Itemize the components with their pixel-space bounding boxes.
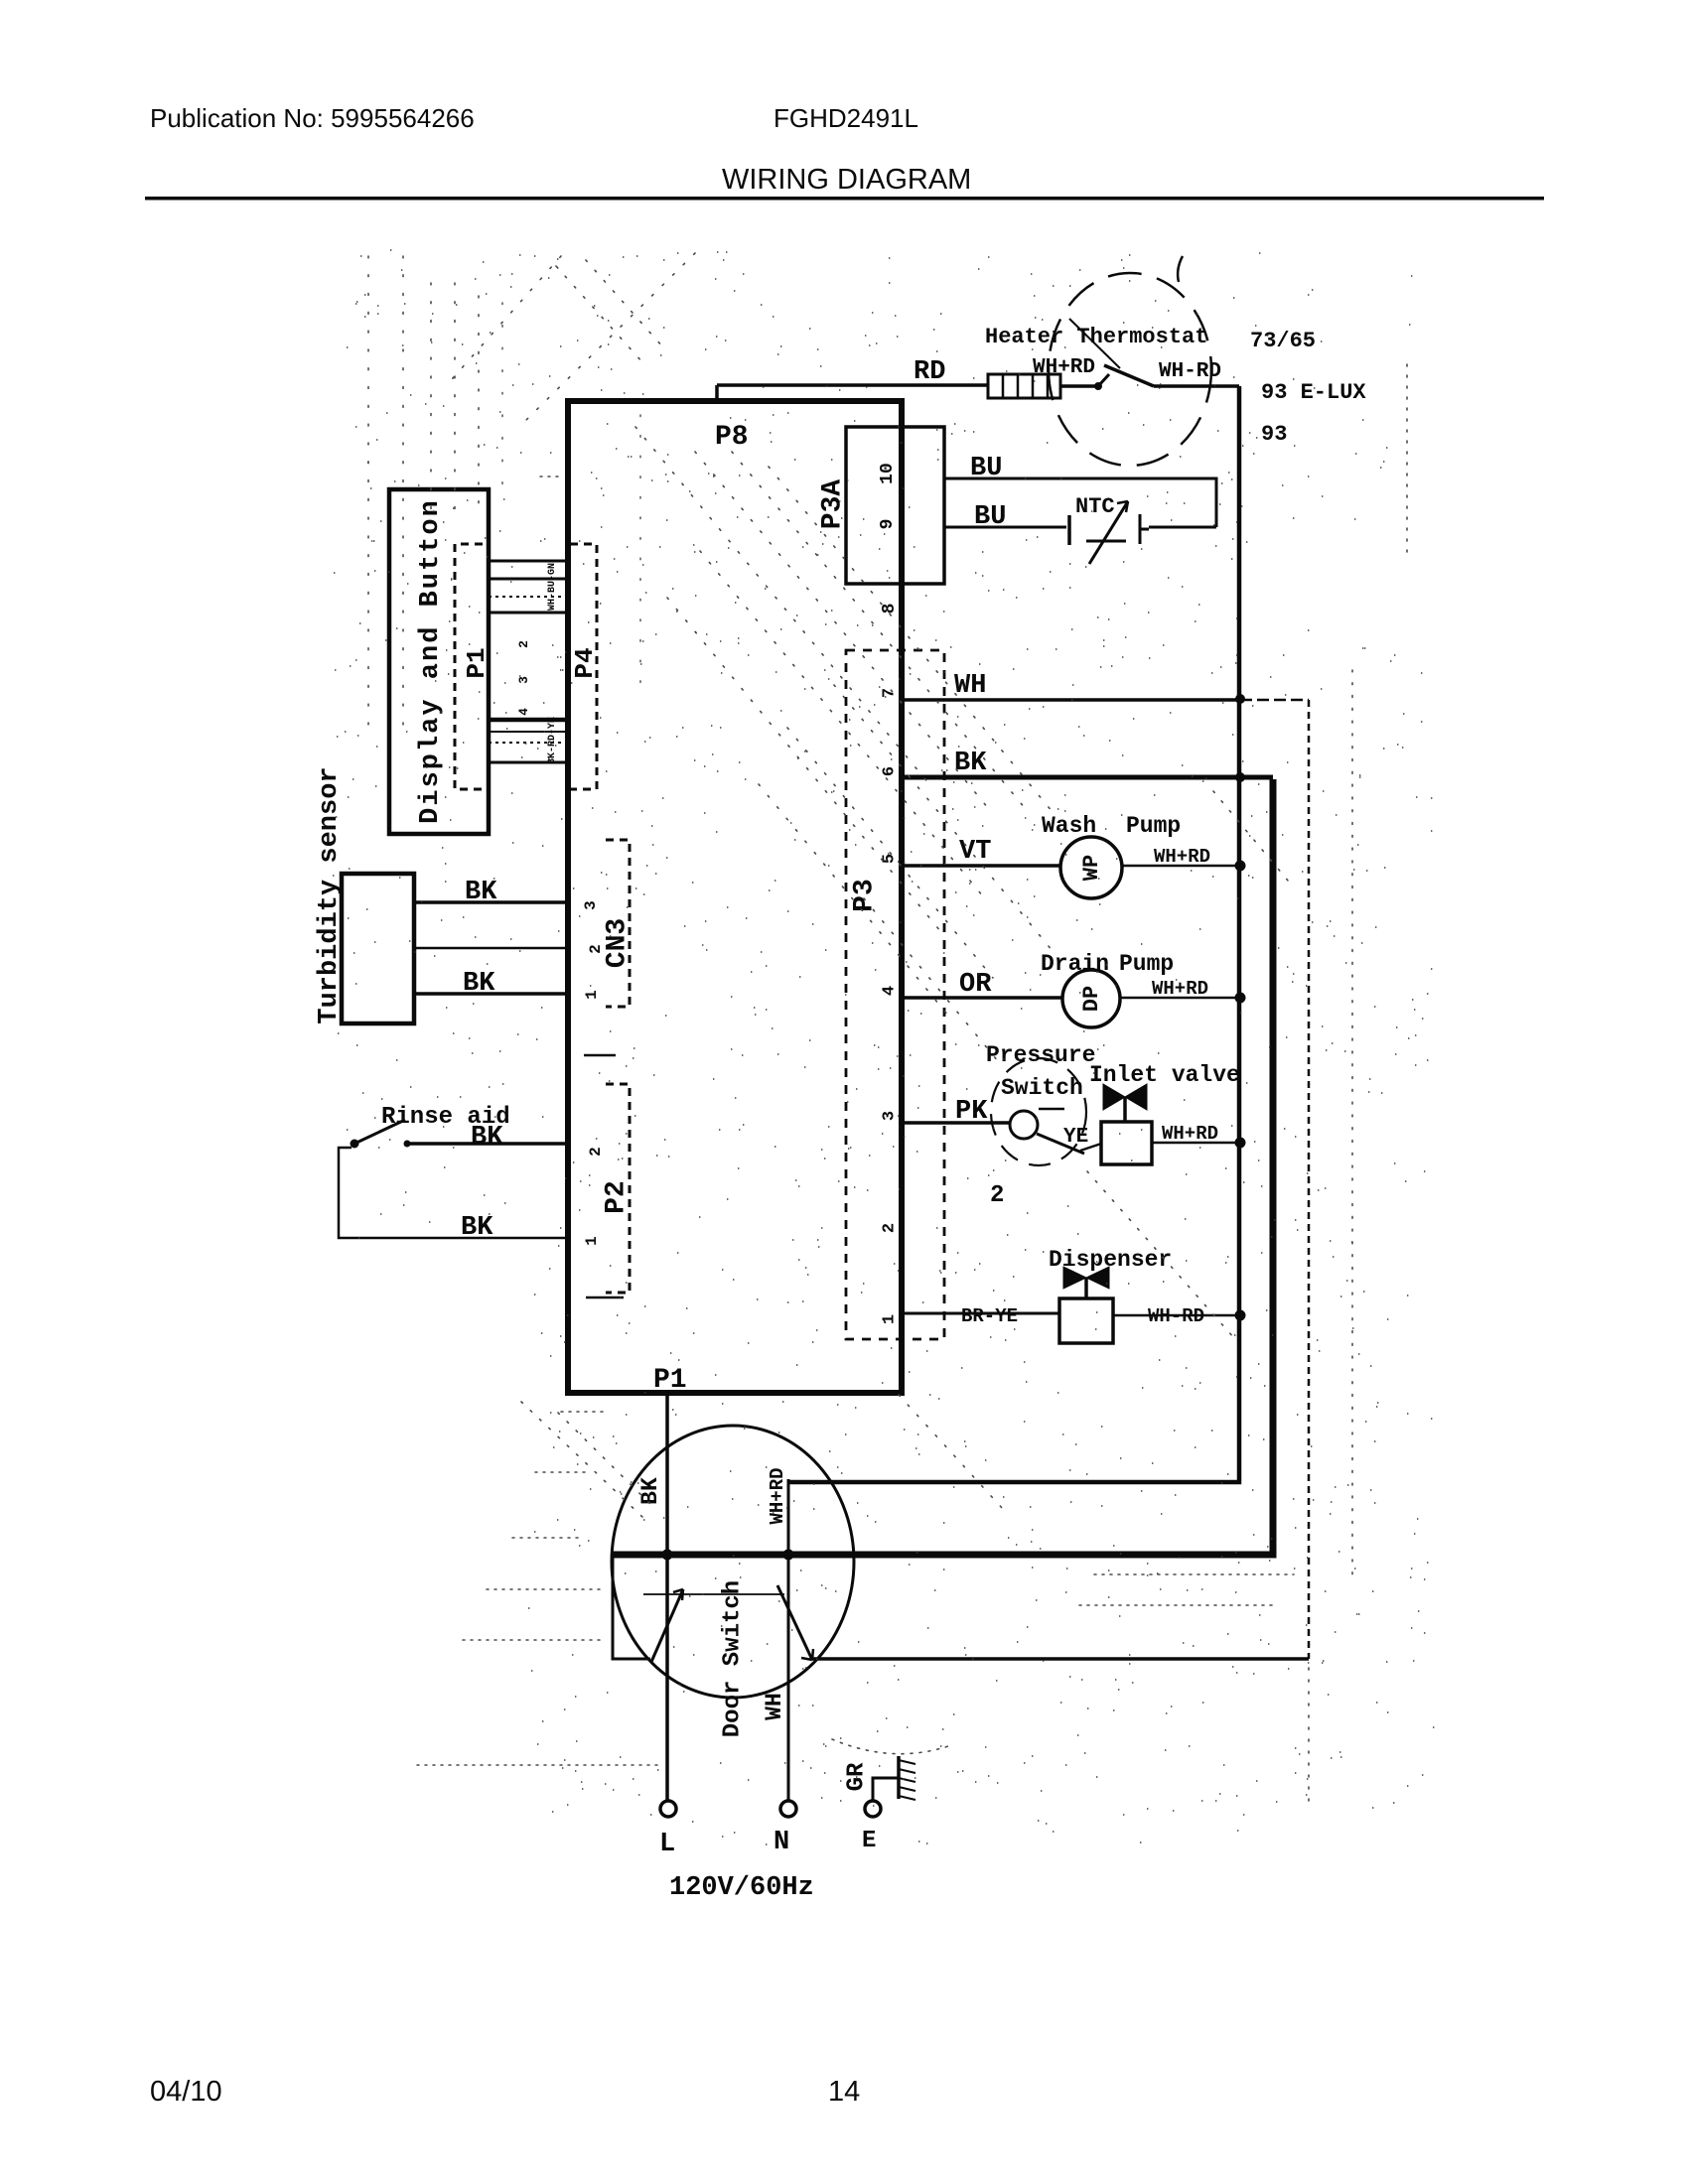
connector P2 bracket: [586, 1084, 630, 1297]
bus WH-RD right side: [788, 386, 1239, 1482]
svg-text:WH+RD: WH+RD: [1033, 356, 1095, 379]
wire BK: [902, 775, 1273, 780]
main control board: [568, 401, 902, 1393]
svg-text:BK: BK: [637, 1477, 663, 1505]
display and button board: [389, 489, 489, 834]
door switch circle: [612, 1426, 854, 1698]
svg-text:3: 3: [880, 1111, 899, 1121]
heater thermostat circle: [1049, 273, 1211, 466]
connector P4 bracket: [570, 544, 597, 789]
svg-text:2: 2: [880, 1223, 899, 1233]
terminal L: [660, 1801, 676, 1817]
svg-text:P2: P2: [601, 1180, 632, 1214]
svg-text:Heater Thermostat: Heater Thermostat: [985, 325, 1207, 349]
svg-text:BK: BK: [463, 969, 495, 999]
drain pump motor: [1062, 970, 1120, 1027]
svg-text:P3: P3: [849, 879, 880, 912]
svg-text:Wash: Wash: [1042, 813, 1096, 839]
svg-text:3: 3: [516, 676, 531, 684]
svg-text:BU: BU: [974, 502, 1006, 532]
connector P3 box: [846, 650, 944, 1339]
svg-text:Switch: Switch: [1001, 1075, 1083, 1101]
circle top tick: [1178, 256, 1183, 282]
terminal E: [865, 1801, 881, 1817]
bus WH right side vertical: [1308, 700, 1311, 1659]
turbidity wire BK top: [414, 900, 568, 904]
wire OR: [902, 996, 1062, 1000]
bus WH bottom horizontal: [812, 1657, 1309, 1661]
svg-text:P3A: P3A: [817, 479, 848, 530]
dispenser coil: [1059, 1298, 1113, 1343]
turbidity wire middle: [414, 947, 568, 950]
svg-text:WH+RD: WH+RD: [1152, 978, 1208, 1000]
terminal N: [780, 1801, 796, 1817]
svg-text:FGHD2491L: FGHD2491L: [774, 103, 918, 133]
svg-text:RD: RD: [914, 357, 945, 387]
svg-text:WH+RD: WH+RD: [1154, 846, 1210, 868]
svg-text:WH-RD: WH-RD: [1148, 1305, 1204, 1327]
svg-text:9: 9: [878, 519, 898, 530]
svg-text:E: E: [862, 1828, 876, 1854]
svg-text:WH+RD: WH+RD: [1162, 1123, 1218, 1145]
ground symbol: [899, 1756, 915, 1800]
dispenser valve symbol: [1063, 1267, 1109, 1298]
wire BU pin9: [944, 526, 1216, 529]
wire WH: [902, 698, 1240, 702]
svg-text:04/10: 04/10: [150, 2076, 222, 2108]
wire RD heater: [717, 385, 988, 401]
title rule: [145, 197, 1544, 201]
svg-text:93: 93: [1261, 422, 1287, 447]
svg-text:Display and Button: Display and Button: [416, 498, 446, 824]
svg-text:L: L: [659, 1830, 675, 1859]
svg-text:7: 7: [880, 688, 899, 698]
svg-text:10: 10: [878, 463, 898, 484]
CN3 spare pin tick: [584, 1054, 616, 1057]
turbidity sensor box: [342, 874, 414, 1024]
svg-text:BU: BU: [970, 454, 1002, 483]
P3 pin numbers: [880, 688, 899, 1324]
wire WH continuation: [1240, 699, 1309, 702]
svg-text:BK: BK: [461, 1213, 493, 1243]
rinse aid switch: [351, 1120, 410, 1148]
svg-text:WH-BU-GN: WH-BU-GN: [547, 563, 558, 611]
svg-text:Inlet valve: Inlet valve: [1089, 1062, 1240, 1088]
rinse aid wire BK top: [407, 1142, 568, 1146]
svg-text:73/65: 73/65: [1250, 329, 1316, 353]
svg-text:BK-RD-YE: BK-RD-YE: [547, 717, 558, 764]
wire WH to terminal N: [787, 1555, 790, 1800]
pressure switch contact: [1010, 1109, 1084, 1154]
dispenser wire WH-RD: [1113, 1314, 1240, 1317]
svg-text:6: 6: [880, 766, 899, 776]
inlet valve wire YE: [1080, 1144, 1101, 1151]
wire VT: [902, 864, 1060, 868]
svg-text:OR: OR: [959, 970, 992, 1000]
connector CN3 bracket: [606, 840, 630, 1007]
P2 pin numbers: [583, 1147, 605, 1246]
CN3 pin numbers: [582, 900, 605, 1000]
svg-text:2: 2: [990, 1182, 1004, 1209]
svg-text:2: 2: [587, 1147, 605, 1157]
svg-text:93 E-LUX: 93 E-LUX: [1261, 380, 1366, 405]
svg-text:1: 1: [880, 1314, 899, 1324]
svg-text:P1: P1: [462, 647, 492, 678]
svg-text:P4: P4: [570, 647, 600, 678]
svg-text:VT: VT: [959, 837, 991, 867]
junction inlet valve bus: [1235, 1138, 1246, 1149]
svg-text:DP: DP: [1079, 986, 1104, 1012]
NTC thermistor: [1069, 501, 1149, 564]
wire BK to terminal L: [665, 1555, 669, 1800]
junction WH crossing: [1235, 694, 1245, 704]
ribbon wire color codes: [547, 563, 558, 764]
svg-text:BK: BK: [471, 1123, 503, 1153]
svg-text:NTC: NTC: [1075, 494, 1115, 519]
connector P1 bracket (display side): [455, 544, 483, 789]
svg-text:Pump: Pump: [1126, 813, 1181, 839]
svg-text:Pressure: Pressure: [986, 1042, 1095, 1068]
turbidity wire BK bottom: [414, 992, 568, 996]
wire E ground: [873, 1778, 899, 1800]
svg-text:N: N: [774, 1828, 789, 1857]
svg-text:PK: PK: [955, 1097, 988, 1127]
svg-text:1: 1: [583, 990, 601, 1000]
inlet valve symbol: [1103, 1084, 1147, 1122]
svg-text:Publication No: 5995564266: Publication No: 5995564266: [150, 103, 475, 133]
svg-text:Pump: Pump: [1119, 951, 1174, 977]
junction wash pump bus: [1235, 861, 1246, 872]
svg-text:CN3: CN3: [602, 918, 633, 968]
door switch right contact: [777, 1585, 813, 1660]
connector P3A box: [846, 427, 944, 584]
dispenser wire BR-YE: [902, 1312, 1059, 1315]
ribbon wires P1 to P4: [489, 561, 568, 762]
heater element: [988, 374, 1060, 398]
svg-text:2: 2: [516, 640, 531, 648]
wire BK from P1 to door switch: [665, 1393, 669, 1555]
inlet valve coil: [1101, 1122, 1152, 1164]
junction dispenser bus: [1235, 1310, 1246, 1321]
junction door switch left pole: [662, 1550, 673, 1561]
svg-text:14: 14: [828, 2076, 860, 2108]
wash pump wire WH+RD: [1122, 865, 1240, 868]
svg-text:WH: WH: [954, 671, 986, 701]
svg-text:1: 1: [583, 1236, 601, 1246]
wash pump motor: [1060, 837, 1122, 898]
svg-text:5: 5: [880, 854, 899, 864]
svg-text:3: 3: [582, 900, 600, 910]
svg-text:WIRING DIAGRAM: WIRING DIAGRAM: [722, 164, 971, 196]
drain pump wire WH+RD: [1120, 997, 1240, 1000]
wire PK: [902, 1121, 1010, 1125]
svg-text:BK: BK: [954, 749, 987, 778]
svg-text:4: 4: [516, 708, 531, 716]
ribbon pin numbers: [516, 640, 531, 716]
wire WH+RD bus to door switch: [787, 1479, 790, 1555]
rinse aid return wire: [339, 1148, 568, 1238]
svg-text:YE: YE: [1063, 1126, 1088, 1149]
svg-text:120V/60Hz: 120V/60Hz: [669, 1873, 814, 1903]
door switch mechanical link: [643, 1593, 784, 1595]
junction BK crossing: [1235, 772, 1245, 782]
inlet valve wire WH+RD: [1152, 1142, 1240, 1145]
svg-text:BR-YE: BR-YE: [961, 1305, 1018, 1327]
svg-text:BK: BK: [465, 878, 497, 907]
thermostat contact: [1060, 319, 1239, 390]
svg-text:4: 4: [880, 986, 899, 996]
svg-text:WH+RD: WH+RD: [767, 1467, 788, 1524]
svg-text:Door Switch: Door Switch: [719, 1580, 746, 1737]
bus BK right side: [613, 779, 1273, 1555]
wire BU pin10: [944, 478, 1216, 527]
junction door switch right pole: [783, 1550, 794, 1561]
door switch left contact: [613, 1555, 683, 1662]
svg-text:WH: WH: [762, 1693, 787, 1720]
pressure switch circle: [991, 1058, 1086, 1165]
svg-text:P1: P1: [653, 1365, 687, 1396]
svg-text:P8: P8: [715, 422, 749, 453]
junction drain pump bus: [1235, 993, 1246, 1004]
